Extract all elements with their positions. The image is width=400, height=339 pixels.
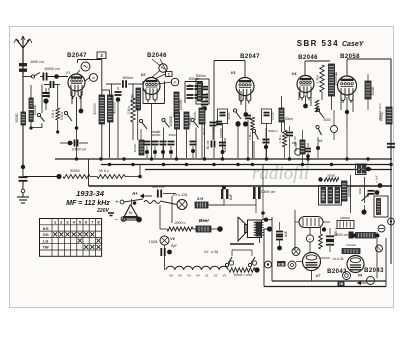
svg-text:MF = 112 kHz: MF = 112 kHz <box>66 200 110 207</box>
svg-text:1: 1 <box>168 73 170 77</box>
svg-text:8uF: 8uF <box>229 193 233 200</box>
svg-text:m: m <box>174 81 177 85</box>
svg-text:100000: 100000 <box>340 216 350 220</box>
svg-text:500cm: 500cm <box>268 129 278 133</box>
svg-text:300000: 300000 <box>33 104 37 115</box>
svg-text:50 cm: 50 cm <box>206 140 210 149</box>
svg-text:1 M.o: 1 M.o <box>278 135 282 143</box>
svg-text:2 M.o: 2 M.o <box>248 132 252 140</box>
svg-text:30000: 30000 <box>371 86 375 95</box>
svg-text:B2043: B2043 <box>364 268 384 274</box>
svg-text:SBR 534: SBR 534 <box>297 39 339 48</box>
svg-text:220V: 220V <box>96 208 109 214</box>
svg-text:B2047: B2047 <box>67 53 87 59</box>
svg-text:CaseY: CaseY <box>342 41 365 48</box>
svg-text:400000: 400000 <box>169 115 173 126</box>
svg-text:50000: 50000 <box>193 111 197 120</box>
svg-text:B2046: B2046 <box>298 55 318 61</box>
svg-text:10000 cm: 10000 cm <box>72 148 87 152</box>
svg-text:−: − <box>115 217 118 222</box>
svg-text:10000 cm: 10000 cm <box>334 233 348 237</box>
svg-text:50 K.o: 50 K.o <box>202 125 206 134</box>
svg-text:5000: 5000 <box>323 118 330 122</box>
svg-text:V3: V3 <box>187 274 191 278</box>
svg-text:V8: V8 <box>358 274 362 278</box>
svg-text:o.1uF: o.1uF <box>375 175 379 183</box>
svg-text:E1B: E1B <box>278 262 285 266</box>
svg-text:400000: 400000 <box>113 102 117 113</box>
svg-text:Invloed: Invloed <box>346 243 356 247</box>
svg-text:20000: 20000 <box>131 94 135 103</box>
svg-text:56: 56 <box>129 211 133 215</box>
svg-text:1933-34: 1933-34 <box>76 189 105 198</box>
svg-text:50000: 50000 <box>70 169 79 173</box>
svg-text:40000: 40000 <box>152 133 161 137</box>
svg-text:LG: LG <box>43 239 48 243</box>
svg-text:KG: KG <box>43 227 49 231</box>
svg-text:1B: 1B <box>339 282 344 286</box>
svg-text:V6: V6 <box>169 274 173 278</box>
svg-text:Beer: Beer <box>199 218 209 223</box>
svg-text:5 M.o: 5 M.o <box>60 112 64 120</box>
svg-text:RpF: RpF <box>171 244 178 248</box>
svg-text:800cm: 800cm <box>196 74 206 78</box>
svg-text:20000: 20000 <box>326 174 335 178</box>
svg-text:4 ti - o.3A: 4 ti - o.3A <box>204 250 219 254</box>
svg-text:10000: 10000 <box>321 192 325 200</box>
svg-text:50 K.o: 50 K.o <box>99 169 109 173</box>
svg-text:100cm: 100cm <box>283 117 293 121</box>
svg-text:V5: V5 <box>178 274 182 278</box>
svg-text:80mA = o/6A: 80mA = o/6A <box>234 273 252 277</box>
svg-text:TW: TW <box>43 246 49 250</box>
svg-text:radiofil: radiofil <box>252 163 309 184</box>
svg-text:1000 cm: 1000 cm <box>30 60 44 64</box>
svg-text:8uF: 8uF <box>284 231 288 237</box>
svg-text:2000: 2000 <box>169 133 176 137</box>
svg-text:OG: OG <box>43 233 49 237</box>
svg-text:300000: 300000 <box>93 103 97 114</box>
svg-text:V6: V6 <box>170 237 174 241</box>
svg-text:B2046: B2046 <box>147 53 167 59</box>
svg-text:V2: V2 <box>214 274 218 278</box>
svg-text:20000: 20000 <box>133 143 137 152</box>
svg-text:2000: 2000 <box>227 112 231 119</box>
svg-text:50000: 50000 <box>15 113 19 122</box>
svg-text:1 M.o: 1 M.o <box>316 75 320 83</box>
svg-text:B2047: B2047 <box>240 54 260 60</box>
svg-text:A+: A+ <box>131 191 138 196</box>
svg-text:2 M.o: 2 M.o <box>127 106 131 115</box>
svg-text:2000 o: 2000 o <box>174 221 186 225</box>
svg-text:S.H: S.H <box>197 197 204 201</box>
svg-text:+: + <box>116 200 119 205</box>
svg-text:600o: 600o <box>358 187 362 194</box>
svg-text:10000: 10000 <box>271 111 275 120</box>
svg-text:10000 cm: 10000 cm <box>44 67 60 71</box>
svg-text:V4: V4 <box>196 274 200 278</box>
svg-text:800cm: 800cm <box>123 76 134 80</box>
svg-text:500 cm: 500 cm <box>152 185 164 189</box>
svg-text:250000 ohm: 250000 ohm <box>378 103 382 121</box>
svg-text:m: m <box>309 237 312 241</box>
svg-text:1928: 1928 <box>149 239 159 244</box>
svg-text:V1: V1 <box>205 274 209 278</box>
svg-text:2 M.o: 2 M.o <box>51 110 55 118</box>
svg-text:V1: V1 <box>66 71 71 75</box>
svg-text:m: m <box>369 279 372 283</box>
svg-text:m: m <box>92 76 95 80</box>
svg-text:100000: 100000 <box>219 128 223 138</box>
svg-text:4 ti o.12A: 4 ti o.12A <box>173 193 188 197</box>
svg-text:100000: 100000 <box>179 99 183 110</box>
svg-text:50000: 50000 <box>294 142 298 151</box>
svg-text:co-0.3A: co-0.3A <box>333 257 344 261</box>
